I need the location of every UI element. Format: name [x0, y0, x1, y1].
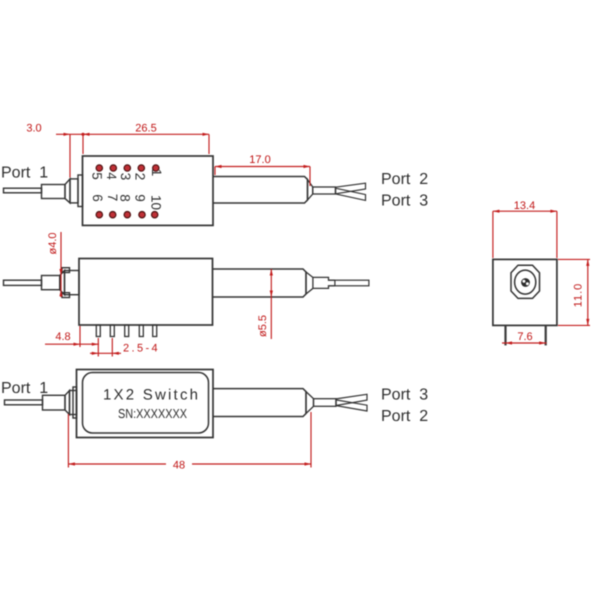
- view4 body: [493, 259, 557, 325]
- svg-text:48: 48: [173, 460, 185, 472]
- svg-text:Port 3: Port 3: [381, 193, 428, 210]
- view3 fiber fan band B: [336, 400, 367, 411]
- svg-text:3.0: 3.0: [26, 123, 41, 135]
- svg-text:1: 1: [149, 169, 164, 177]
- svg-text:6: 6: [90, 194, 105, 202]
- view3 output taper: [306, 392, 314, 414]
- dimension 2.5-4 arrowheads: [92, 352, 119, 355]
- view1 pin numbers row 1: [90, 169, 165, 181]
- svg-text:2.5-4: 2.5-4: [123, 343, 160, 355]
- dimension 17.0 arrowheads: [215, 165, 310, 168]
- view1 fiber pigtail left: [4, 175, 83, 207]
- svg-text:4.8: 4.8: [55, 331, 70, 343]
- dimension 11.0 arrowheads: [586, 259, 589, 325]
- view1 fiber fan band B: [336, 188, 366, 200]
- view4 ferrule outer octagon: [511, 265, 540, 298]
- view4 pin right: [545, 325, 547, 345]
- view3 fiber fan band A: [336, 394, 367, 405]
- view1 output stem: [313, 187, 336, 194]
- view1 pin circles row 1: [96, 165, 159, 171]
- dimension 7.6 arrowheads: [506, 341, 546, 344]
- svg-text:1X2 Switch: 1X2 Switch: [103, 387, 198, 404]
- view1 output tube: [213, 177, 308, 204]
- dimension 4.8 line: [45, 326, 99, 357]
- svg-text:ø4.0: ø4.0: [47, 232, 59, 254]
- svg-text:26.5: 26.5: [135, 123, 156, 135]
- dimension dia4.0 arrowheads: [59, 269, 62, 296]
- dimension 11.0 lines: [558, 259, 590, 325]
- svg-text:SN:XXXXXXX: SN:XXXXXXX: [118, 406, 187, 421]
- view2 fiber pigtail left: [4, 268, 80, 298]
- dimension 48 arrowheads: [68, 462, 311, 465]
- view1 pin circles row 2: [96, 212, 158, 218]
- svg-text:8: 8: [117, 194, 132, 202]
- dimension dia5.5 arrowheads: [270, 269, 273, 297]
- svg-text:9: 9: [133, 194, 148, 202]
- svg-text:13.4: 13.4: [514, 200, 535, 212]
- dimension 13.4 lines: [493, 211, 557, 258]
- view4 ferrule center: [521, 278, 530, 287]
- dimension 2.5-4 line: [90, 338, 121, 357]
- svg-text:3: 3: [118, 173, 133, 181]
- dimension 3.0/26.5 arrowheads: [64, 133, 210, 136]
- svg-text:11.0: 11.0: [573, 283, 585, 308]
- view4 pin left: [504, 325, 506, 345]
- dimension dia4.0 line: [60, 232, 62, 297]
- svg-text:Port 2: Port 2: [381, 408, 428, 425]
- dimension 13.4 arrowheads: [493, 210, 557, 213]
- dimension 17.0 line: [215, 167, 310, 187]
- view1 pin numbers row 2: [90, 194, 163, 210]
- view2 pins: [96, 325, 156, 337]
- svg-text:Port 1: Port 1: [1, 380, 48, 397]
- svg-text:17.0: 17.0: [249, 154, 270, 166]
- svg-text:10: 10: [149, 195, 164, 210]
- dimension 48 lines: [68, 412, 311, 468]
- svg-text:ø5.5: ø5.5: [257, 315, 269, 337]
- dimension 4.8 arrowheads: [74, 343, 99, 346]
- view4 ferrule inner ring: [515, 270, 536, 294]
- view3 body outline: [77, 370, 214, 438]
- view2 output taper: [306, 272, 313, 294]
- view2 output tube: [213, 269, 307, 297]
- view1 output taper: [308, 180, 313, 201]
- view3 output tube: [213, 389, 306, 417]
- view3 label plate: [83, 373, 209, 434]
- svg-text:Port 1: Port 1: [1, 165, 48, 182]
- view3 fiber pigtail left: [5, 387, 77, 418]
- view2 body: [79, 259, 213, 326]
- svg-text:Port 2: Port 2: [381, 171, 428, 188]
- view1 body: [83, 156, 214, 225]
- svg-text:5: 5: [90, 172, 105, 180]
- view2 output stem: [313, 277, 335, 288]
- dimension 7.6 lines: [502, 342, 547, 344]
- svg-text:7.6: 7.6: [517, 331, 532, 343]
- svg-text:4: 4: [104, 172, 119, 180]
- svg-text:2: 2: [133, 173, 148, 181]
- view1 fiber fan band A: [336, 183, 366, 194]
- view2 output fiber: [335, 280, 369, 286]
- dimension 3.0/26.5 line: [56, 134, 209, 177]
- svg-text:Port 3: Port 3: [381, 387, 428, 404]
- view3 output stem: [314, 399, 337, 407]
- dimension dia5.5 line: [270, 269, 272, 339]
